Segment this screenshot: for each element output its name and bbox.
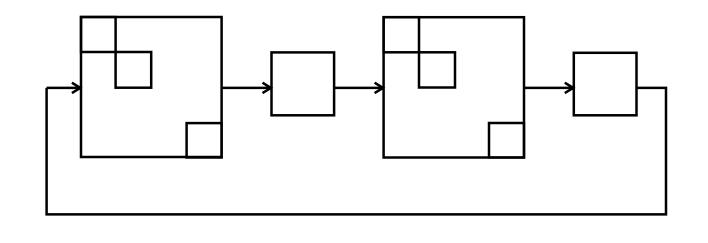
block: right inner square middle: [419, 52, 455, 87]
block: left inner square top-left: [81, 17, 116, 52]
block: small square B (far right): [574, 53, 637, 116]
block: left outer square: [81, 17, 222, 157]
wire: arrow shaft from feedback loop into left outer square: [47, 87, 81, 90]
wire: feedback loop from square B right edge, around the bottom, back to the first arrow: [47, 88, 666, 214]
block: right inner square bottom-right: [489, 123, 524, 158]
block: small square A (between the two large blocks): [272, 52, 335, 115]
arrowhead into square B: [565, 83, 573, 93]
arrowhead into left outer square: [72, 83, 80, 93]
block: left inner square middle: [116, 52, 152, 88]
block: right outer square: [384, 17, 524, 157]
block: right inner square top-left: [384, 17, 419, 52]
arrowhead into square A: [263, 83, 271, 93]
arrowhead into right outer square: [375, 83, 383, 93]
wire: arrow from right outer square to square B: [524, 87, 573, 90]
wire: arrow from left outer square to square A: [222, 87, 271, 90]
block: left inner square bottom-right: [187, 123, 222, 157]
wire: arrow from square A to right outer square: [334, 87, 383, 90]
